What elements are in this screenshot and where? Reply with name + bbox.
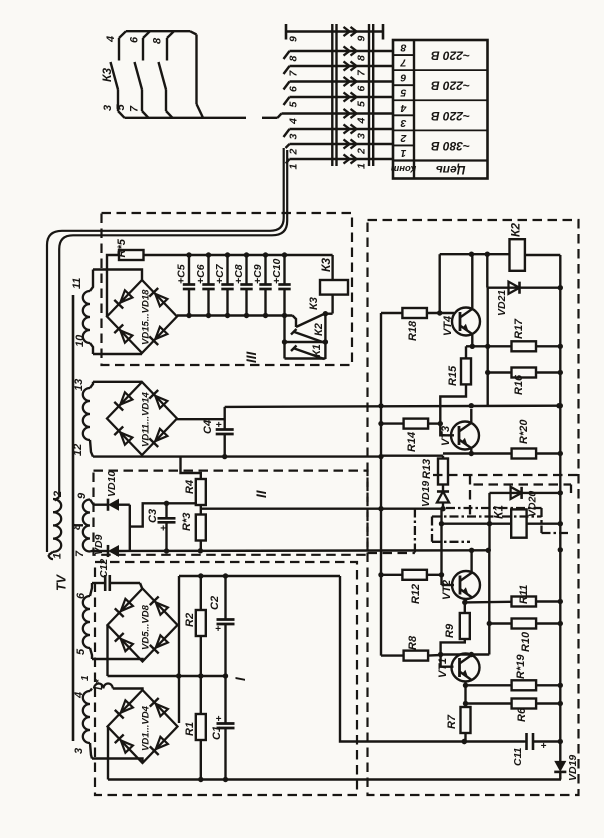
svg-text:6: 6 — [400, 72, 406, 84]
svg-text:R8: R8 — [407, 635, 419, 650]
label C2 — [209, 596, 221, 610]
wire winding 9 to VD10 — [94, 504, 108, 506]
label R14 — [406, 432, 418, 452]
wire bus C4 to control box — [225, 403, 562, 409]
label R2 — [184, 613, 196, 627]
label VD10 — [106, 471, 118, 497]
svg-text:К3: К3 — [100, 68, 114, 82]
svg-text:13: 13 — [73, 379, 85, 391]
label VD15...VD18 — [141, 289, 152, 345]
wire winding 11 to bridge top — [93, 270, 142, 282]
svg-text:4: 4 — [73, 692, 85, 699]
label C1 plus — [216, 714, 222, 725]
svg-text:~380 В: ~380 В — [431, 139, 470, 153]
wire branch K2dot down — [485, 288, 490, 406]
labels pin numbers — [288, 36, 368, 170]
wire pin 9 with end bars — [286, 24, 383, 40]
label contact K2 — [313, 323, 325, 336]
dash-dot module boundary inner — [432, 517, 542, 542]
wire R8 leads — [381, 654, 441, 657]
wire left rail R18-R14-R12-R8 — [378, 313, 383, 656]
svg-text:+С8: +С8 — [233, 264, 245, 284]
label VD20 — [527, 491, 539, 517]
wire R9 top — [464, 602, 466, 613]
svg-text:I: I — [233, 677, 248, 681]
wire R14 left — [381, 422, 404, 424]
wire top bus section I — [179, 573, 340, 578]
svg-text:4: 4 — [356, 118, 368, 125]
junction dots capacitor bank — [186, 252, 287, 318]
svg-text:Цепь: Цепь — [436, 163, 466, 177]
contact K2 — [291, 329, 324, 343]
label contact 6 — [129, 36, 141, 43]
svg-text:R4: R4 — [184, 480, 196, 494]
svg-text:2: 2 — [52, 491, 64, 498]
svg-text:С1: С1 — [211, 726, 223, 740]
svg-text:4: 4 — [400, 102, 407, 114]
wire R13 to VD19 — [442, 485, 444, 492]
wire R20 right — [536, 452, 560, 454]
inductor L* — [94, 683, 113, 688]
wire emitter node R20 — [443, 451, 512, 456]
wire bridge left corner to R5 — [107, 255, 119, 317]
label R5 — [116, 238, 128, 257]
capacitors C5-C10 — [183, 255, 291, 316]
svg-text:3: 3 — [288, 134, 300, 140]
wire VT1 base node — [438, 652, 489, 657]
label terminal 11 — [71, 278, 83, 289]
label R1 — [184, 722, 196, 736]
label VT2 — [441, 580, 453, 600]
wire winding 7 to VD9 — [94, 550, 108, 552]
wire main right rail — [558, 255, 563, 742]
connector arrows — [344, 27, 357, 164]
svg-text:7: 7 — [129, 105, 141, 112]
label transformer TV — [55, 573, 69, 591]
label R18 — [407, 320, 419, 341]
svg-text:R15: R15 — [447, 365, 459, 386]
wire VT4 feed — [439, 254, 441, 313]
svg-text:VD20: VD20 — [527, 491, 539, 517]
label VD19 — [567, 755, 579, 781]
relay contact group K3 (3 switches) — [111, 31, 175, 118]
label terminal 9 — [76, 492, 88, 499]
label VD19 regulator — [420, 481, 432, 507]
svg-text:R14: R14 — [406, 432, 418, 452]
wire VD19 bottom node — [440, 503, 445, 512]
svg-text:5: 5 — [356, 101, 368, 107]
svg-text:II: II — [254, 490, 269, 498]
label VD11...VD14 — [141, 392, 152, 447]
svg-text:VD5...VD8: VD5...VD8 — [141, 604, 152, 650]
svg-text:6: 6 — [288, 86, 300, 92]
wire K1 node down — [488, 524, 490, 551]
svg-text:С2: С2 — [209, 596, 221, 610]
label terminal 1 — [52, 553, 64, 559]
svg-text:4: 4 — [105, 36, 117, 43]
svg-text:11: 11 — [71, 278, 83, 289]
wire R3 bottom — [200, 541, 202, 551]
wire ladder left — [282, 316, 287, 359]
resistor R10 — [512, 619, 536, 629]
label VT4 — [442, 316, 454, 336]
transistor VT3 — [451, 422, 479, 450]
label contact K1 — [311, 344, 323, 357]
wire VT1 collector stub — [470, 653, 472, 656]
wire VT3 emitter — [470, 449, 472, 454]
wire section I output to control — [340, 576, 563, 744]
resistor R15 — [461, 358, 471, 384]
svg-text:9: 9 — [356, 36, 368, 42]
diode VD20 — [511, 487, 522, 499]
svg-text:5: 5 — [75, 648, 87, 655]
svg-text:9: 9 — [76, 492, 88, 499]
svg-text:С4: С4 — [202, 420, 214, 434]
label R9 — [444, 623, 456, 638]
svg-text:5: 5 — [400, 87, 406, 99]
label R17 — [513, 318, 525, 339]
svg-text:VT2: VT2 — [441, 580, 453, 600]
wire VD20 left branch — [487, 493, 492, 527]
label terminal 10 — [74, 334, 86, 347]
label terminal 2 — [52, 491, 64, 498]
dash-dot module boundary outer — [368, 508, 570, 553]
resistor R18 — [402, 308, 427, 318]
relay coil K3 — [320, 255, 348, 314]
svg-text:С12: С12 — [98, 559, 110, 578]
label node 1 — [80, 675, 91, 681]
dashed box section I — [95, 562, 357, 795]
capacitor C1 — [217, 676, 235, 780]
svg-text:3: 3 — [400, 117, 406, 129]
labels C5-C10 — [176, 258, 284, 284]
svg-text:2: 2 — [356, 148, 368, 155]
wire VD5-8 left corner to mid bus — [106, 625, 108, 676]
svg-text:10: 10 — [74, 334, 86, 347]
label C3 plus — [160, 523, 166, 535]
resistor R20 — [512, 449, 536, 459]
label R15 — [447, 365, 459, 386]
resistor R1 — [196, 714, 206, 740]
svg-text:VT3: VT3 — [440, 426, 452, 446]
label terminal 8 — [71, 523, 83, 530]
svg-text:TV: TV — [55, 573, 69, 591]
label L* — [93, 679, 105, 690]
svg-text:~220 В: ~220 В — [431, 49, 470, 63]
wire R5 to cap bus — [144, 254, 333, 256]
wire R16 leads — [488, 371, 561, 373]
wire R18 right to VT4 base — [427, 310, 454, 315]
svg-text:R7: R7 — [446, 714, 458, 729]
svg-text:8: 8 — [356, 55, 368, 61]
capacitor C11 — [524, 733, 560, 750]
wire K1 left line — [442, 523, 512, 525]
secondary winding 13-12 — [83, 382, 93, 457]
svg-text:2: 2 — [288, 149, 300, 156]
wire winding 4 to bridge top — [113, 689, 143, 691]
wire ladder rung — [285, 341, 326, 343]
svg-text:R12: R12 — [410, 584, 422, 604]
connector table frame — [393, 40, 488, 179]
wire R9 bottom jog — [441, 639, 465, 655]
wires pins 1-8 to connector table — [282, 51, 394, 159]
wire ladder right — [323, 314, 328, 359]
label terminal 4 — [73, 692, 85, 699]
label VT3 — [440, 426, 452, 446]
label terminal 12 — [72, 444, 84, 456]
label R16 — [513, 374, 525, 395]
svg-text:VD1...VD4: VD1...VD4 — [141, 705, 152, 751]
label C4 plus — [216, 419, 222, 431]
label VD5...VD8 — [141, 604, 152, 650]
label terminal 7 — [74, 550, 86, 557]
wire cap bottom bus — [177, 314, 293, 316]
label section I — [233, 677, 248, 681]
wire R11 right — [536, 600, 560, 602]
wire VT1 emitter — [463, 681, 468, 688]
label VD9 — [93, 534, 105, 555]
secondary winding 11-10 — [83, 270, 93, 355]
diode VD19 regulator — [437, 492, 449, 503]
wire R13 top — [381, 456, 443, 459]
svg-text:2: 2 — [400, 132, 407, 144]
label terminal 13 — [73, 379, 85, 391]
wire mid bus — [108, 673, 229, 678]
wire VT2 base — [442, 584, 455, 586]
wire emitter down — [463, 685, 468, 707]
wire VD1-4 left corner to bottom bus — [107, 727, 109, 780]
label R19 — [515, 654, 527, 679]
wire VD9 output line to K1 node — [119, 548, 491, 554]
wire R7 bottom — [462, 733, 467, 744]
svg-text:3: 3 — [356, 133, 368, 139]
connector separation bars — [332, 24, 373, 166]
label relay K3 — [319, 258, 333, 272]
transistor VT1 — [452, 654, 480, 682]
wire emitter to R11 — [465, 601, 512, 604]
svg-text:+С6: +С6 — [195, 264, 207, 284]
wire R2 leads — [200, 576, 202, 676]
label contact 5 — [115, 104, 127, 111]
svg-text:+: + — [216, 714, 222, 725]
wire R18 left — [381, 312, 402, 314]
svg-text:+С9: +С9 — [252, 264, 264, 284]
label R13 — [421, 459, 433, 479]
transistor VT2 — [452, 571, 480, 599]
bridge rectifier VD11...VD14 — [107, 382, 177, 455]
wire R4 R3 junction — [200, 505, 202, 515]
svg-text:~220 В: ~220 В — [431, 79, 470, 93]
resistor R2 — [196, 610, 206, 636]
svg-text:С3: С3 — [147, 509, 159, 523]
svg-text:+: + — [541, 741, 547, 752]
svg-text:8: 8 — [400, 42, 406, 54]
wire R10 line — [489, 622, 511, 624]
svg-text:7: 7 — [74, 550, 86, 557]
svg-text:К3: К3 — [308, 297, 320, 310]
wire R6 right — [536, 702, 560, 704]
svg-text:3: 3 — [73, 748, 85, 754]
resistor R6 — [512, 699, 536, 709]
resistor R9 — [460, 613, 470, 639]
wire winding 5 to bridge bottom — [92, 659, 143, 662]
label R6 — [516, 707, 528, 722]
label R20 — [518, 419, 530, 444]
svg-text:R17: R17 — [513, 318, 525, 339]
wire VD20 line — [490, 492, 561, 494]
diode VD19 — [554, 761, 566, 772]
svg-text:К2: К2 — [509, 223, 523, 237]
label terminal 3 — [73, 748, 85, 754]
wire VD19 node down VT2 chain — [439, 509, 444, 585]
wire VT4 emitter — [471, 335, 473, 347]
wire divider output to VD19 — [201, 508, 443, 510]
svg-text:R16: R16 — [513, 374, 525, 395]
wire R15 top — [465, 346, 467, 358]
wire K1 right to rail — [527, 523, 561, 525]
wire VD21 line — [487, 287, 560, 289]
svg-text:К1: К1 — [311, 344, 323, 357]
svg-text:9: 9 — [288, 36, 300, 42]
svg-text:R9: R9 — [444, 623, 456, 638]
resistor R7 — [461, 707, 471, 733]
wire R4 top to C4 line — [181, 457, 201, 479]
resistor R12 — [402, 570, 427, 580]
resistor R5 — [119, 250, 144, 260]
resistor R13 — [438, 459, 448, 485]
dashed box section II — [94, 471, 368, 555]
transformer core — [72, 295, 75, 741]
svg-text:+С7: +С7 — [214, 263, 226, 284]
svg-text:VD19: VD19 — [567, 755, 579, 781]
wire emitter node R19 — [466, 684, 512, 686]
wire K1branch down rail — [487, 550, 492, 654]
dashed divider control unit lower — [433, 474, 579, 476]
svg-text:R1: R1 — [184, 722, 196, 736]
label R12 — [410, 584, 422, 604]
label C11 — [512, 747, 524, 766]
relay coil K2 — [510, 239, 525, 271]
wire VT2 collector — [470, 550, 472, 572]
dashed box control unit — [368, 220, 579, 795]
wire rail to VD19 — [559, 742, 561, 762]
wire winding 10 to bridge bottom — [93, 353, 142, 355]
svg-text:4: 4 — [288, 118, 300, 125]
svg-text:+С10: +С10 — [271, 258, 283, 284]
svg-text:8: 8 — [71, 523, 83, 530]
svg-text:R11: R11 — [518, 585, 530, 604]
label terminal 6 — [75, 592, 87, 599]
transistor VT4 — [452, 308, 480, 336]
relay coil K1 — [511, 509, 526, 537]
svg-text:1: 1 — [288, 164, 300, 170]
label terminal 5 — [75, 648, 87, 655]
wire VD19 to ground bus — [559, 772, 561, 780]
svg-text:+: + — [216, 419, 222, 431]
label VT1 — [437, 658, 449, 678]
wire K3 top rail — [126, 31, 203, 118]
svg-text:+С5: +С5 — [176, 264, 188, 284]
svg-text:5: 5 — [288, 102, 300, 108]
capacitor C2 — [217, 576, 235, 676]
resistor R8 — [404, 651, 429, 661]
secondary winding 4-3 — [83, 689, 92, 759]
svg-text:Конт: Конт — [390, 163, 416, 174]
wire jog cathode to divider — [130, 501, 196, 527]
wire winding 12 line to C4 and right — [93, 454, 384, 459]
resistor R17 — [512, 341, 537, 351]
wire R19 right — [536, 684, 560, 686]
label section II — [254, 490, 269, 498]
svg-text:L*: L* — [93, 679, 105, 690]
svg-text:VD9: VD9 — [93, 534, 105, 555]
svg-text:1: 1 — [356, 163, 368, 169]
wire bottom ground bus — [108, 777, 561, 782]
wire winding 13 to bridge top — [93, 381, 142, 383]
wire R12 leads — [381, 574, 442, 576]
label R8 — [407, 635, 419, 650]
svg-text:1: 1 — [400, 147, 406, 159]
label contact 7 — [129, 105, 141, 112]
dashed inner module boundary — [470, 475, 571, 517]
label relay K2 — [509, 223, 523, 237]
svg-text:R18: R18 — [407, 320, 419, 341]
wire K3 bottom bus to pin 4 — [125, 114, 282, 118]
label R10 — [520, 631, 532, 652]
dashed box section III — [102, 213, 353, 365]
label VD1...VD4 — [141, 705, 152, 751]
label C4 — [202, 420, 214, 434]
svg-text:С11: С11 — [512, 747, 524, 766]
svg-text:R13: R13 — [421, 459, 433, 479]
svg-text:+: + — [160, 523, 166, 535]
wire bridge right corner to C4 node — [177, 418, 225, 420]
label C3 — [147, 509, 159, 523]
label C11 plus — [541, 741, 547, 752]
svg-text:III: III — [244, 351, 259, 363]
labels table circuit values — [431, 49, 470, 153]
svg-text:К1: К1 — [492, 505, 506, 519]
svg-text:К3: К3 — [319, 258, 333, 272]
capacitor C12 — [102, 575, 142, 591]
wire VD21 branch left — [486, 254, 488, 288]
diode VD21 — [509, 282, 520, 294]
wire winding 3 to bridge bottom — [92, 759, 143, 764]
wire R6 line — [466, 702, 512, 704]
contact K3 self-hold — [293, 311, 333, 327]
resistor R3 — [196, 515, 206, 541]
wire cathode rail — [129, 505, 131, 551]
primary winding 1-2 — [49, 497, 62, 559]
svg-text:VT1: VT1 — [437, 658, 449, 678]
wire C12 to bridge top — [141, 587, 143, 590]
label R4 — [184, 480, 196, 494]
label C2 plus — [215, 624, 221, 635]
resistor R16 — [512, 368, 537, 378]
svg-text:6: 6 — [356, 86, 368, 92]
label R7 — [446, 714, 458, 729]
svg-text:6: 6 — [75, 592, 87, 599]
capacitor C4 — [216, 407, 234, 457]
wire R17 right — [536, 345, 560, 347]
svg-text:R2: R2 — [184, 613, 196, 627]
labels table contact numbers — [399, 42, 407, 159]
capacitor C3 — [158, 503, 176, 553]
diode VD9 — [108, 545, 119, 557]
resistor R4 — [196, 479, 206, 505]
wire VD10 to cathode rail — [119, 504, 130, 506]
bridge rectifier VD15...VD18 — [107, 280, 177, 353]
